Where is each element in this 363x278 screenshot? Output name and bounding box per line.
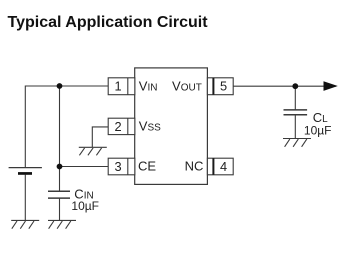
ground (VSS) (79, 147, 107, 155)
wire VOUT rail (233, 85, 336, 87)
wire CL top lead (294, 86, 296, 110)
label CL (304, 110, 332, 138)
pin 5 (207, 78, 233, 95)
output arrow (324, 81, 338, 91)
pin 1 (108, 78, 135, 95)
capacitor CIN (48, 191, 70, 198)
wire VSS to ground (92, 127, 108, 147)
op-amp U1 (regulator IC body) (135, 68, 208, 184)
svg-text:10µF: 10µF (71, 199, 99, 213)
svg-text:2: 2 (114, 119, 121, 134)
pin label VSS (139, 119, 161, 134)
svg-text:10µF: 10µF (304, 124, 332, 138)
junction node (CE branch) (57, 164, 63, 170)
wire CL bottom lead (294, 115, 296, 139)
capacitor CL (284, 110, 308, 115)
label CIN (71, 186, 99, 213)
pin 4 (207, 158, 233, 175)
svg-text:4: 4 (220, 159, 227, 174)
svg-text:3: 3 (114, 159, 121, 174)
wire CIN bottom lead (59, 198, 61, 220)
junction node (rail / CIN branch) (57, 83, 63, 89)
svg-text:5: 5 (220, 79, 227, 94)
pin 2 (108, 118, 135, 134)
svg-text:1: 1 (114, 79, 121, 94)
svg-text:Typical Application Circuit: Typical Application Circuit (8, 14, 209, 31)
wire CE to pin 3 (60, 166, 109, 168)
battery BT1 (9, 168, 42, 175)
wire battery top lead (24, 86, 26, 168)
pin label CE (138, 158, 156, 173)
svg-text:CE: CE (138, 158, 156, 173)
junction node (CL branch) (292, 83, 298, 89)
pin 3 (108, 158, 135, 175)
wire CIN/CE vertical (59, 86, 61, 191)
pin label NC (185, 158, 204, 173)
pin label VIN (139, 79, 158, 94)
svg-text:NC: NC (185, 158, 204, 173)
wire VIN top rail (25, 85, 108, 87)
ground (CIN) (48, 220, 76, 228)
ground (battery) (11, 220, 39, 228)
ground (CL) (283, 139, 311, 147)
pin label VOUT (172, 79, 202, 94)
wire battery bottom lead (24, 175, 26, 221)
title: Typical Application Circuit (8, 14, 209, 31)
